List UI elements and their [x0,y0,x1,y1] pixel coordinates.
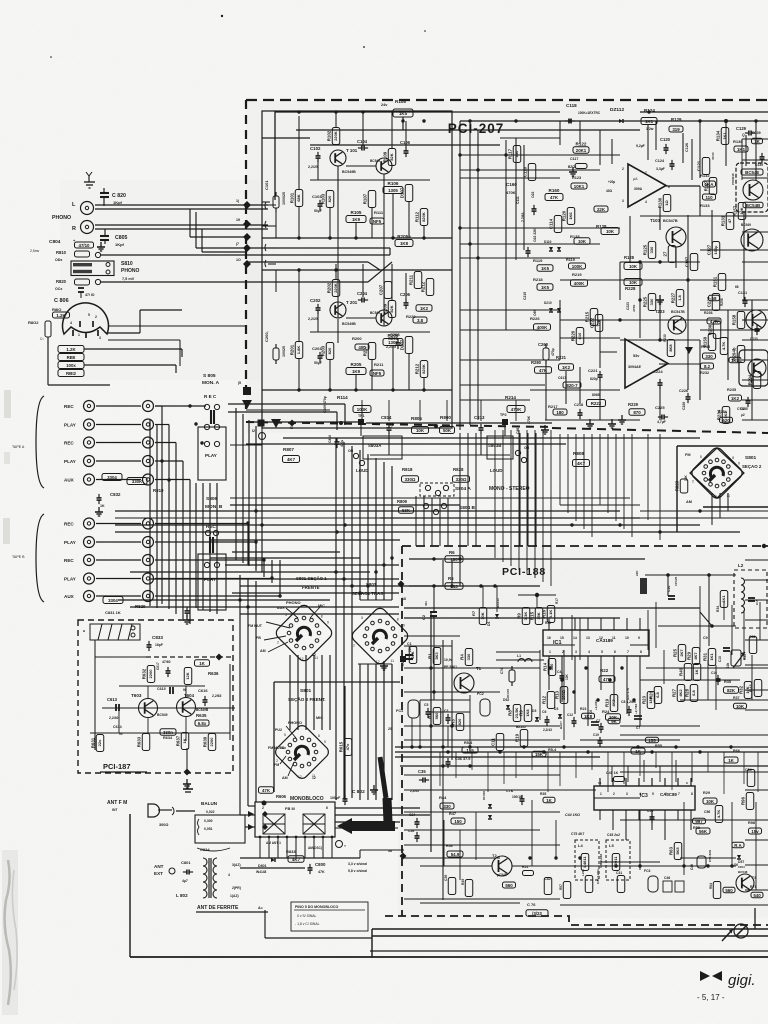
svg-text:PINO 5 DO MONOBLOCO: PINO 5 DO MONOBLOCO [295,905,339,909]
svg-text:2: 2 [277,641,279,645]
svg-text:C 802: C 802 [352,789,365,795]
svg-text:20: 20 [388,727,392,731]
svg-text:0,300: 0,300 [204,819,213,823]
svg-text:4µ7: 4µ7 [182,879,188,883]
svg-text:1(AZ): 1(AZ) [230,894,239,898]
svg-text:ANT DE FERRITE: ANT DE FERRITE [197,905,239,911]
svg-text:16pF: 16pF [155,643,163,647]
svg-text:12K: 12K [185,672,190,679]
svg-text:PLAY: PLAY [64,577,76,582]
svg-text:C616: C616 [198,688,208,693]
svg-text:ANT F M: ANT F M [107,800,127,806]
svg-text:300Ω: 300Ω [159,823,168,827]
svg-text:SEÇAO 2: SEÇAO 2 [742,464,762,469]
svg-text:C≈: C≈ [40,337,44,341]
svg-text:MON. A: MON. A [202,380,220,386]
svg-text:FM: FM [685,453,690,457]
svg-text:2: 2 [692,480,694,484]
svg-text:PCI-187: PCI-187 [103,762,131,771]
svg-text:12: 12 [298,775,302,779]
svg-text:9: 9 [738,461,740,465]
svg-text:8: 8 [318,734,320,738]
svg-text:5: 5 [700,455,702,459]
svg-text:2,2/40: 2,2/40 [109,716,119,720]
svg-text:R807: R807 [283,447,294,452]
svg-text:AM(OSC): AM(OSC) [308,846,322,850]
svg-text:R632: R632 [141,668,146,679]
svg-text:PHONO: PHONO [286,600,301,605]
svg-text:C801: C801 [181,860,191,865]
svg-text:BC549: BC549 [157,713,168,717]
svg-text:MONOBLOCO: MONOBLOCO [290,796,324,802]
svg-text:4: 4 [228,873,230,877]
svg-text:A=: A= [258,906,263,910]
svg-text:S804 A: S804 A [455,486,471,492]
svg-text:2: 2 [353,644,355,648]
svg-text:- 1,8 v C/ SINAL: - 1,8 v C/ SINAL [295,922,320,926]
svg-text:S801 SEÇÃO 1: S801 SEÇÃO 1 [296,576,327,581]
svg-text:INT: INT [112,808,118,812]
svg-text:TAPE B: TAPE B [12,555,25,559]
svg-text:FB: FB [256,636,261,640]
svg-text:47x: 47x [345,743,350,750]
svg-text:14K: 14K [684,474,688,481]
svg-text:SEÇÃO 2 FRENT.: SEÇÃO 2 FRENT. [288,696,326,702]
svg-text:R634: R634 [163,736,173,740]
svg-text:MIC: MIC [316,716,323,720]
svg-text:100µF: 100µF [330,796,341,800]
svg-text:BC549B: BC549B [196,708,209,712]
svg-text:PLAY: PLAY [64,459,76,464]
svg-text:12: 12 [312,776,316,780]
svg-text:R636: R636 [208,671,219,676]
svg-text:R639: R639 [202,736,207,747]
svg-text:5: 5 [284,733,286,737]
svg-text:C613: C613 [107,697,118,702]
svg-text:FB III: FB III [285,806,295,811]
svg-text:IN4148: IN4148 [256,870,267,874]
svg-text:S806: S806 [206,496,218,502]
svg-text:D801: D801 [258,864,267,868]
svg-text:REC: REC [64,522,74,527]
svg-text:- 5, 17 -: - 5, 17 - [697,993,725,1002]
svg-text:1K: 1K [100,504,105,508]
svg-text:C800: C800 [315,862,326,867]
svg-text:9: 9 [324,740,326,744]
svg-text:2: 2 [262,806,264,810]
svg-text:u: u [83,629,85,633]
svg-text:R633: R633 [136,736,141,747]
svg-text:5: 5 [285,613,287,617]
svg-text:AM ANT 1: AM ANT 1 [266,841,281,845]
svg-text:LOUD: LOUD [490,468,502,473]
svg-text:R809: R809 [397,499,408,504]
svg-text:R8IO: R8IO [52,307,61,312]
svg-text:PLAY: PLAY [64,423,76,428]
svg-text:2,2/63: 2,2/63 [212,694,222,698]
svg-text:9: 9 [327,621,329,625]
svg-text:AUX: AUX [64,594,75,599]
svg-text:0,022: 0,022 [206,810,215,814]
svg-text:AM: AM [686,500,692,504]
svg-text:PLAY: PLAY [205,453,217,458]
svg-text:C804: C804 [49,239,61,245]
svg-text:R606: R606 [276,794,287,799]
svg-text:R828: R828 [453,467,464,472]
svg-text:470µ: 470µ [340,440,344,447]
svg-text:C617: C617 [156,662,160,670]
svg-text:C615: C615 [157,687,166,691]
svg-text:47/60: 47/60 [162,660,171,664]
svg-text:T603: T603 [131,693,142,698]
svg-text:C831 1K: C831 1K [105,610,121,615]
svg-text:PU2: PU2 [275,728,282,732]
svg-text:6: 6 [326,806,328,810]
svg-text:TAPE A: TAPE A [12,445,25,449]
svg-text:C810: C810 [328,435,332,443]
svg-text:L 802: L 802 [176,893,188,898]
svg-text:330K: 330K [132,479,143,484]
svg-text:FM MUT: FM MUT [248,624,263,628]
svg-text:2(PR): 2(PR) [232,886,241,890]
svg-text:LOUD: LOUD [356,468,368,473]
svg-text:R819: R819 [153,488,164,493]
svg-text:AUX: AUX [277,606,285,610]
svg-text:FM: FM [274,763,279,767]
svg-text:ANT: ANT [154,864,164,869]
svg-text:R833: R833 [286,849,296,854]
svg-text:2200: 2200 [148,669,153,679]
svg-text:2200: 2200 [209,737,214,747]
svg-text:4K7: 4K7 [287,457,296,462]
svg-text:FRENTE: FRENTE [302,585,320,590]
svg-text:AM: AM [260,649,266,653]
svg-text:3304: 3304 [107,475,117,480]
svg-text:3304: 3304 [108,598,118,603]
svg-text:0,051: 0,051 [204,827,213,831]
svg-text:5: 5 [361,616,363,620]
svg-text:REC: REC [64,404,74,409]
svg-text:12: 12 [312,653,316,657]
svg-text:C614: C614 [113,725,122,729]
svg-text:C832: C832 [110,492,121,497]
svg-text:SEÇAO1 TRAS.: SEÇAO1 TRAS. [352,591,384,596]
svg-text:12: 12 [376,660,380,664]
svg-text:8: 8 [321,614,323,618]
svg-text:S801: S801 [745,455,757,461]
svg-text:EXT: EXT [154,871,163,876]
svg-text:|5: |5 [238,381,241,385]
svg-text:ON: ON [348,449,354,453]
svg-text:2,5mv: 2,5mv [30,249,40,253]
svg-text:1K: 1K [199,661,205,666]
svg-text:PLAY: PLAY [64,540,76,545]
svg-text:5,8 v c/sinal: 5,8 v c/sinal [348,869,367,873]
svg-text:R637: R637 [175,735,180,746]
svg-text:R808: R808 [573,451,584,456]
svg-text:REC: REC [64,441,74,446]
svg-text:R E C: R E C [204,394,217,399]
svg-text:330Ω: 330Ω [456,477,467,482]
svg-text:BALUN: BALUN [201,801,218,806]
svg-text:11: 11 [391,659,395,663]
svg-text:REC: REC [64,558,74,563]
svg-text:AM: AM [282,776,288,780]
svg-text:gigi.: gigi. [728,972,756,989]
svg-text:3(AZ): 3(AZ) [232,863,241,867]
svg-text:MON. B: MON. B [205,504,223,510]
svg-text:6.8x: 6.8x [198,721,207,726]
svg-text:PHONO: PHONO [288,721,302,725]
svg-text:AUX: AUX [64,478,75,483]
svg-text:330Ω: 330Ω [405,477,416,482]
svg-text:53K: 53K [402,508,411,513]
svg-text:38: 38 [388,849,392,853]
svg-text:0 v S/ SINAL: 0 v S/ SINAL [297,914,317,918]
svg-text:47K: 47K [262,788,271,793]
svg-text:22x: 22x [97,739,102,746]
svg-text:R818: R818 [402,467,413,472]
svg-text:3,3 v s/sinal: 3,3 v s/sinal [348,862,367,866]
svg-text:C833: C833 [152,635,163,640]
svg-text:12: 12 [300,657,304,661]
svg-text:8: 8 [732,456,734,460]
svg-text:R615: R615 [338,741,343,752]
svg-text:S804 B: S804 B [459,505,476,511]
svg-text:47K: 47K [318,870,325,874]
svg-text:R635: R635 [196,713,207,718]
svg-text:S801: S801 [300,688,312,694]
svg-text:R8O2: R8O2 [28,320,39,325]
svg-text:Y: Y [344,844,346,848]
